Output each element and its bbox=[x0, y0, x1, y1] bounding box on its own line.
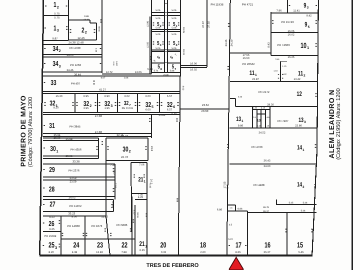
svg-text:16.02: 16.02 bbox=[190, 69, 197, 72]
svg-text:33.38: 33.38 bbox=[73, 160, 80, 164]
boundary between 20 and 18 (long vertical) bbox=[178, 72, 180, 254]
parcel 9-5 PH 15743 bbox=[270, 12, 272, 56]
svg-text:5.06: 5.06 bbox=[172, 47, 177, 50]
parcel 32-2 bbox=[74, 93, 76, 112]
svg-text:9.86: 9.86 bbox=[84, 15, 89, 18]
svg-text:7.96: 7.96 bbox=[276, 9, 282, 12]
svg-text:5.22: 5.22 bbox=[228, 238, 233, 241]
svg-text:18: 18 bbox=[200, 241, 206, 250]
svg-text:PH 2172: PH 2172 bbox=[259, 90, 270, 94]
svg-text:3: 3 bbox=[59, 64, 61, 68]
svg-text:PH 74603: PH 74603 bbox=[277, 43, 290, 47]
svg-text:5.06: 5.06 bbox=[156, 47, 161, 50]
svg-text:7.40: 7.40 bbox=[110, 164, 116, 167]
svg-text:6.00: 6.00 bbox=[145, 109, 151, 112]
svg-text:12.46: 12.46 bbox=[78, 36, 85, 40]
svg-text:8.20: 8.20 bbox=[49, 251, 55, 254]
svg-text:7: 7 bbox=[174, 52, 178, 56]
svg-text:1.5: 1.5 bbox=[230, 206, 234, 209]
parcel 5-8 bbox=[152, 62, 165, 64]
parcel 17 bbox=[227, 210, 247, 212]
svg-text:3: 3 bbox=[55, 246, 57, 250]
svg-text:PH 20562: PH 20562 bbox=[242, 62, 255, 66]
parcel row 32 bottom lines bbox=[43, 111, 180, 113]
svg-text:8.30: 8.30 bbox=[133, 210, 136, 215]
svg-text:8.06: 8.06 bbox=[72, 215, 78, 218]
svg-text:8: 8 bbox=[160, 67, 162, 71]
svg-text:6.95: 6.95 bbox=[83, 95, 89, 98]
svg-text:6.57: 6.57 bbox=[167, 95, 173, 98]
svg-text:5.06: 5.06 bbox=[156, 27, 161, 30]
svg-text:PH 407: PH 407 bbox=[71, 81, 81, 85]
svg-text:PH 5086: PH 5086 bbox=[116, 223, 127, 227]
parcel 5-2 bbox=[152, 12, 165, 14]
svg-text:12.72: 12.72 bbox=[106, 71, 113, 74]
parcel 12 PH 2172 bbox=[230, 98, 236, 100]
svg-text:4.38: 4.38 bbox=[72, 251, 78, 254]
narrow strip between 22 and 21 bbox=[134, 205, 136, 255]
svg-text:37.02: 37.02 bbox=[207, 21, 210, 28]
street line PRIMERO DE MAYO (block left edge) bbox=[40, 0, 44, 255]
svg-text:1.62: 1.62 bbox=[282, 73, 287, 76]
svg-text:1: 1 bbox=[56, 149, 58, 153]
svg-text:PH 11872: PH 11872 bbox=[69, 204, 82, 208]
svg-text:5.06: 5.06 bbox=[172, 27, 177, 30]
svg-text:1: 1 bbox=[241, 119, 243, 123]
svg-text:7: 7 bbox=[174, 67, 176, 71]
svg-text:28: 28 bbox=[49, 185, 55, 194]
svg-text:18.01: 18.01 bbox=[182, 49, 185, 56]
svg-text:PH 11938: PH 11938 bbox=[211, 3, 224, 7]
svg-text:PH 7407: PH 7407 bbox=[278, 119, 289, 123]
svg-text:6.07: 6.07 bbox=[101, 76, 106, 79]
svg-text:3: 3 bbox=[111, 104, 113, 108]
svg-text:12.83: 12.83 bbox=[96, 251, 103, 254]
svg-text:23.8: 23.8 bbox=[150, 146, 153, 152]
svg-text:0.40: 0.40 bbox=[171, 113, 177, 116]
svg-text:25.98: 25.98 bbox=[66, 138, 73, 141]
svg-text:16.06: 16.06 bbox=[190, 63, 197, 66]
line below parcels 13 bbox=[230, 127, 318, 129]
svg-text:11.41: 11.41 bbox=[293, 9, 300, 12]
svg-text:4.25: 4.25 bbox=[138, 196, 144, 199]
svg-text:36.37: 36.37 bbox=[263, 210, 270, 213]
svg-text:23.86: 23.86 bbox=[295, 125, 302, 128]
svg-text:PH 15743: PH 15743 bbox=[281, 20, 294, 24]
parcel 32-3 bbox=[97, 93, 99, 112]
svg-text:23: 23 bbox=[97, 241, 103, 250]
svg-text:28.30: 28.30 bbox=[267, 104, 274, 107]
svg-text:PH 4356: PH 4356 bbox=[71, 148, 82, 152]
svg-text:30: 30 bbox=[123, 144, 129, 153]
parcel 5-7 bbox=[168, 62, 181, 64]
svg-text:5: 5 bbox=[156, 54, 162, 60]
parcel 26 bbox=[43, 215, 106, 217]
svg-text:36.43: 36.43 bbox=[264, 159, 271, 162]
svg-text:6.25: 6.25 bbox=[139, 249, 145, 252]
svg-text:PH 4780: PH 4780 bbox=[70, 46, 81, 50]
svg-text:36.44: 36.44 bbox=[74, 73, 81, 76]
svg-text:6.43: 6.43 bbox=[149, 184, 152, 189]
svg-text:2: 2 bbox=[304, 74, 306, 78]
svg-text:1: 1 bbox=[255, 73, 257, 77]
alley between 30-1 and 30-2 bbox=[105, 138, 107, 160]
street line TRES DE FEBRERO (block bottom edge) bbox=[39, 254, 312, 256]
svg-text:1: 1 bbox=[145, 244, 147, 248]
svg-text:12.96: 12.96 bbox=[147, 20, 150, 27]
svg-text:5.75: 5.75 bbox=[54, 16, 60, 20]
parcel 5 diagonal units bbox=[152, 49, 165, 51]
central divider line bbox=[227, 0, 231, 255]
svg-text:PH 4763: PH 4763 bbox=[252, 145, 263, 149]
svg-text:TRES DE FEBRERO: TRES DE FEBRERO bbox=[146, 263, 199, 269]
svg-text:5: 5 bbox=[169, 54, 175, 60]
parcel 2-2 bbox=[68, 19, 90, 21]
svg-text:2: 2 bbox=[57, 5, 59, 9]
svg-text:24.05: 24.05 bbox=[67, 54, 74, 57]
svg-text:17.55: 17.55 bbox=[224, 181, 227, 188]
svg-text:30.86: 30.86 bbox=[98, 25, 101, 31]
svg-text:2: 2 bbox=[90, 104, 92, 108]
svg-text:12.83: 12.83 bbox=[101, 215, 108, 218]
parcel 33 PH 407 bbox=[43, 71, 102, 73]
svg-text:ALEM LEANDRO N: ALEM LEANDRO N bbox=[329, 90, 336, 159]
parcel 32-7 PH 21203 bbox=[117, 93, 119, 112]
svg-text:23.82: 23.82 bbox=[159, 114, 166, 117]
svg-text:1.95: 1.95 bbox=[104, 107, 110, 110]
svg-text:34.60: 34.60 bbox=[264, 165, 271, 168]
parcel 21 upper unit bbox=[131, 162, 147, 164]
svg-text:9.86: 9.86 bbox=[238, 125, 244, 128]
parcel 1-3 bbox=[43, 40, 68, 42]
svg-text:34.30: 34.30 bbox=[231, 39, 234, 46]
parcel 5-3 bbox=[152, 29, 165, 31]
parcel 5 cluster outer walls bbox=[151, 0, 153, 74]
svg-text:5.45: 5.45 bbox=[289, 202, 294, 205]
svg-text:13.42: 13.42 bbox=[294, 78, 301, 81]
svg-text:PH 21203: PH 21203 bbox=[122, 107, 134, 110]
svg-text:9.87: 9.87 bbox=[52, 37, 58, 41]
svg-text:12: 12 bbox=[297, 91, 303, 98]
svg-text:24: 24 bbox=[73, 241, 80, 250]
svg-text:22.76: 22.76 bbox=[121, 134, 128, 138]
svg-text:6.42: 6.42 bbox=[115, 61, 118, 66]
svg-text:23.87: 23.87 bbox=[252, 78, 259, 81]
svg-text:PH 4721: PH 4721 bbox=[242, 3, 254, 7]
svg-text:5.06: 5.06 bbox=[156, 9, 161, 12]
svg-text:16: 16 bbox=[264, 241, 270, 250]
svg-text:8.43: 8.43 bbox=[268, 42, 271, 48]
line ending 32-row extension into parcel 18 bbox=[180, 108, 229, 110]
svg-text:0.26: 0.26 bbox=[238, 96, 243, 99]
svg-text:7.06: 7.06 bbox=[139, 164, 145, 167]
svg-text:PH 2376: PH 2376 bbox=[69, 169, 80, 173]
svg-text:6.86: 6.86 bbox=[217, 209, 223, 212]
svg-text:36.76: 36.76 bbox=[263, 206, 270, 209]
svg-text:7.88: 7.88 bbox=[121, 251, 127, 254]
svg-text:23.60: 23.60 bbox=[201, 109, 208, 113]
svg-text:31: 31 bbox=[49, 121, 55, 130]
svg-text:17: 17 bbox=[235, 241, 241, 250]
svg-text:0.33: 0.33 bbox=[161, 251, 167, 254]
svg-text:16.50: 16.50 bbox=[243, 57, 250, 60]
svg-text:34.03: 34.03 bbox=[69, 196, 76, 199]
svg-text:12.92: 12.92 bbox=[147, 41, 150, 48]
svg-text:6: 6 bbox=[173, 105, 175, 109]
svg-text:5.06: 5.06 bbox=[156, 17, 161, 20]
svg-text:30: 30 bbox=[50, 144, 56, 153]
svg-text:16.25: 16.25 bbox=[288, 56, 295, 59]
svg-text:21: 21 bbox=[139, 241, 145, 248]
svg-text:2.18: 2.18 bbox=[265, 125, 270, 128]
svg-text:(Código: 21950) Altura: 1200: (Código: 21950) Altura: 1200 bbox=[335, 88, 342, 160]
svg-text:1.10: 1.10 bbox=[273, 70, 278, 73]
svg-text:5.06: 5.06 bbox=[156, 33, 161, 36]
svg-text:34.52: 34.52 bbox=[259, 131, 266, 134]
svg-text:2: 2 bbox=[59, 49, 61, 53]
svg-text:23.59: 23.59 bbox=[70, 180, 77, 183]
svg-text:34: 34 bbox=[53, 44, 59, 53]
parcel 5-1 bbox=[168, 12, 181, 14]
svg-text:34.06: 34.06 bbox=[136, 212, 139, 218]
svg-text:9.42: 9.42 bbox=[306, 15, 312, 18]
svg-text:16.30: 16.30 bbox=[56, 95, 63, 98]
notch at top of parcel 17 bbox=[227, 204, 235, 206]
svg-text:9.30: 9.30 bbox=[53, 106, 59, 109]
svg-text:3.05: 3.05 bbox=[94, 48, 97, 53]
svg-text:3.95: 3.95 bbox=[83, 107, 89, 110]
svg-text:1.06: 1.06 bbox=[124, 76, 129, 79]
svg-text:3: 3 bbox=[307, 6, 309, 10]
svg-text:26: 26 bbox=[49, 219, 55, 228]
parcel 30-1 PH 4356 bbox=[43, 140, 98, 142]
svg-text:2: 2 bbox=[302, 185, 304, 189]
svg-text:2: 2 bbox=[129, 150, 131, 154]
street line right side (far kerb) bbox=[351, 0, 353, 270]
svg-text:6.57: 6.57 bbox=[167, 109, 173, 112]
parcel 16 bbox=[247, 212, 316, 214]
parcel 29 PH 2376 bbox=[43, 163, 115, 165]
svg-text:16.02: 16.02 bbox=[288, 33, 295, 36]
svg-text:37.07: 37.07 bbox=[202, 21, 205, 28]
parcel 30-2 bbox=[106, 137, 148, 139]
corridor ticks bbox=[165, 3, 168, 5]
svg-text:1: 1 bbox=[307, 46, 309, 50]
parcel 32-5 bbox=[137, 93, 139, 112]
parcel 1-2 bbox=[43, 15, 68, 17]
svg-text:34.35: 34.35 bbox=[225, 39, 228, 46]
svg-text:3: 3 bbox=[304, 120, 306, 124]
svg-text:5.06: 5.06 bbox=[172, 9, 177, 12]
svg-text:PH 15099: PH 15099 bbox=[44, 235, 56, 238]
parcel 32-6 bbox=[159, 93, 161, 112]
svg-text:6.86: 6.86 bbox=[238, 208, 243, 211]
svg-text:20: 20 bbox=[160, 241, 166, 250]
svg-text:9.25: 9.25 bbox=[49, 228, 55, 231]
svg-text:PH 1073: PH 1073 bbox=[91, 224, 102, 228]
svg-text:0.46: 0.46 bbox=[112, 62, 115, 67]
svg-text:1: 1 bbox=[144, 180, 146, 184]
svg-text:PH 3845: PH 3845 bbox=[70, 124, 81, 128]
svg-text:5: 5 bbox=[151, 105, 153, 109]
svg-text:15: 15 bbox=[297, 241, 304, 250]
svg-text:3: 3 bbox=[152, 58, 156, 62]
svg-text:PRIMERO DE MAYO: PRIMERO DE MAYO bbox=[21, 95, 28, 167]
svg-text:22.76: 22.76 bbox=[121, 155, 128, 159]
svg-text:7.93: 7.93 bbox=[114, 183, 117, 189]
parcel 34-2 PH 4780 bbox=[43, 43, 102, 45]
svg-text:29: 29 bbox=[49, 165, 55, 174]
svg-text:5.88: 5.88 bbox=[170, 70, 175, 73]
line below parcels 11 bbox=[230, 81, 318, 83]
svg-text:9.23: 9.23 bbox=[49, 216, 55, 219]
outer boundary right of parcels 1-2 / 34 column bbox=[101, 0, 103, 73]
svg-text:5.46: 5.46 bbox=[301, 210, 306, 213]
svg-text:2: 2 bbox=[85, 31, 87, 35]
svg-text:33: 33 bbox=[51, 78, 57, 87]
svg-text:5.06: 5.06 bbox=[172, 17, 177, 20]
svg-text:41.27: 41.27 bbox=[99, 87, 106, 91]
svg-text:PH 14068: PH 14068 bbox=[67, 224, 80, 228]
svg-text:5.74: 5.74 bbox=[154, 70, 159, 73]
svg-text:6.90: 6.90 bbox=[104, 95, 110, 98]
parcel 5-4 bbox=[168, 29, 181, 31]
svg-text:47.08: 47.08 bbox=[95, 114, 102, 118]
svg-text:5: 5 bbox=[308, 25, 310, 29]
svg-text:34: 34 bbox=[53, 59, 59, 68]
svg-text:24.2: 24.2 bbox=[150, 179, 153, 185]
parcel 34-3 PH 1263 bbox=[43, 71, 102, 73]
red location arrow bbox=[229, 257, 243, 270]
parcel 13 small units cluster bbox=[252, 107, 254, 128]
svg-text:2.60: 2.60 bbox=[200, 251, 206, 254]
svg-text:1: 1 bbox=[302, 148, 304, 152]
svg-text:5.46: 5.46 bbox=[298, 251, 304, 254]
svg-text:5.06: 5.06 bbox=[172, 33, 177, 36]
cross line through bottom-left columns bbox=[61, 238, 135, 240]
svg-text:13: 13 bbox=[257, 119, 261, 123]
svg-text:3: 3 bbox=[57, 29, 59, 33]
svg-text:6.02: 6.02 bbox=[124, 95, 130, 98]
svg-text:1.10: 1.10 bbox=[282, 65, 287, 68]
svg-text:4.5: 4.5 bbox=[229, 224, 233, 227]
svg-text:18.05: 18.05 bbox=[182, 27, 185, 34]
svg-text:10.06: 10.06 bbox=[84, 19, 91, 22]
svg-text:10: 10 bbox=[300, 41, 306, 50]
svg-text:22: 22 bbox=[121, 241, 127, 250]
svg-text:36.37: 36.37 bbox=[264, 251, 271, 254]
svg-text:23.62: 23.62 bbox=[202, 103, 209, 107]
line between 29-28 block and midzone bbox=[105, 161, 107, 217]
svg-text:7.40: 7.40 bbox=[112, 170, 115, 175]
svg-text:8.66: 8.66 bbox=[235, 251, 241, 254]
svg-text:PH 4488: PH 4488 bbox=[254, 183, 265, 187]
block right edge along ALEM LEANDRO N bbox=[312, 0, 318, 255]
svg-text:24.06: 24.06 bbox=[163, 74, 169, 77]
svg-text:PH 1263: PH 1263 bbox=[70, 63, 81, 67]
svg-text:27: 27 bbox=[50, 200, 56, 209]
svg-text:3.45: 3.45 bbox=[275, 58, 280, 61]
strip line above parcels 15/16 bbox=[276, 204, 316, 206]
parcel 9-3 bbox=[287, 0, 289, 13]
svg-text:8.62: 8.62 bbox=[181, 86, 184, 91]
svg-text:5.46: 5.46 bbox=[303, 202, 308, 205]
svg-text:(Código: 79700) Altura: 1200: (Código: 79700) Altura: 1200 bbox=[27, 97, 34, 167]
svg-text:6.00: 6.00 bbox=[145, 95, 151, 98]
